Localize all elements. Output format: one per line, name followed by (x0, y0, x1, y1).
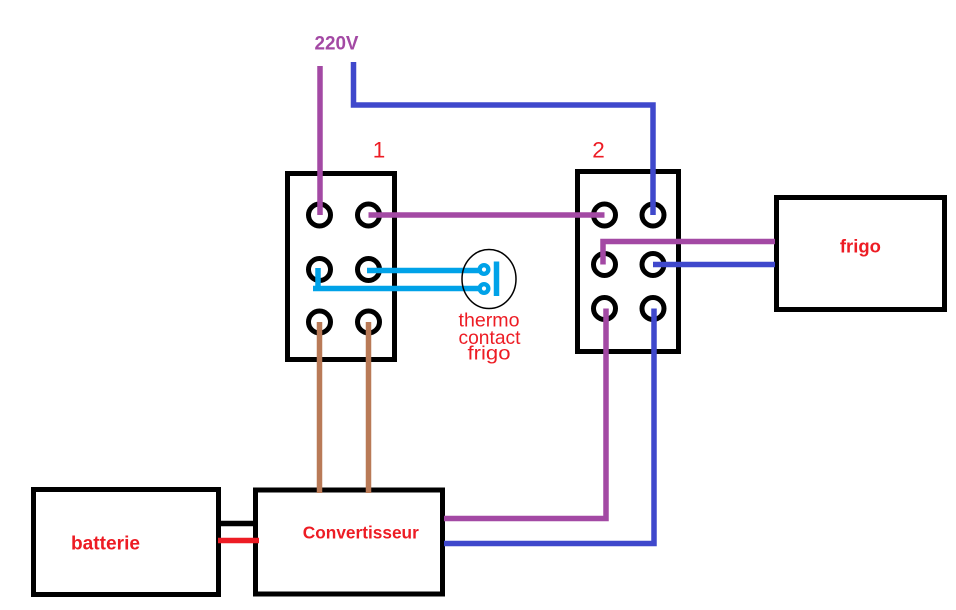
svg-text:220V: 220V (315, 33, 359, 54)
svg-text:2: 2 (592, 137, 605, 162)
svg-text:Convertisseur: Convertisseur (303, 523, 419, 543)
svg-text:1: 1 (373, 137, 386, 162)
svg-text:batterie: batterie (71, 534, 140, 555)
svg-text:frigo: frigo (840, 236, 881, 257)
svg-text:frigo: frigo (468, 343, 511, 365)
